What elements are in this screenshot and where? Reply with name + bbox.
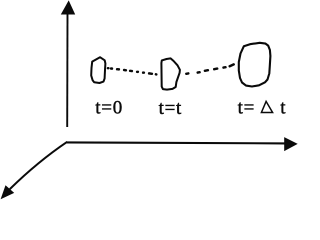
x-axis horizontal line (67, 142, 286, 143)
svg-text:t: t (280, 98, 286, 119)
blob t=t (161, 58, 180, 89)
z-axis diagonal line (10, 142, 67, 189)
svg-text:t=: t= (238, 98, 255, 119)
blob t=0 (91, 57, 105, 83)
x-axis arrowhead (284, 137, 298, 151)
delta symbol (261, 101, 272, 112)
svg-text:t=t: t=t (159, 98, 182, 119)
z-axis arrowhead (1, 185, 15, 199)
blob t=Delta t (239, 43, 271, 87)
dashed path from blob2 to blob3 (186, 64, 233, 73)
svg-text:t=0: t=0 (95, 98, 123, 119)
dashed path from blob1 to blob2 (108, 68, 156, 74)
y-axis arrowhead (61, 0, 75, 14)
y-axis vertical line (66, 14, 68, 128)
